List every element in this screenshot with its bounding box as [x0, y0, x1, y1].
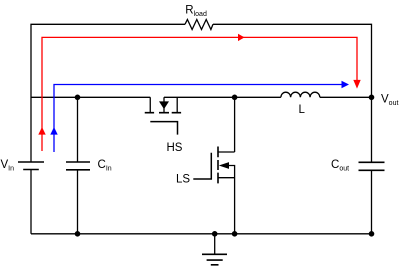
wire rail inductor to Vout: [320, 96, 372, 98]
node junction switch node: [232, 95, 238, 101]
svg-text:L: L: [299, 104, 306, 116]
svg-text:LS: LS: [176, 174, 190, 186]
svg-text:VIn: VIn: [1, 159, 15, 173]
transistor Q1 HS gate: [150, 122, 177, 135]
node V_out: [369, 95, 375, 101]
transistor Q2 LS gate: [193, 153, 211, 179]
transistor Q2 LS body+source leads: [218, 166, 235, 234]
transistor Q2 LS body arrow: [219, 162, 229, 169]
battery V_in plates: [18, 162, 44, 170]
red arrow up-left: [38, 127, 45, 135]
node junction ground: [212, 231, 218, 237]
svg-text:CIn: CIn: [98, 159, 112, 173]
ground bars: [202, 254, 227, 264]
wire top-left loop (Vin to Rload): [31, 24, 185, 162]
ground stem: [214, 234, 216, 255]
node junction C_in bottom: [75, 231, 81, 237]
transistor Q1 HS body arrow: [159, 101, 169, 109]
capacitor C_out plates: [359, 162, 385, 170]
svg-text:Rload: Rload: [185, 5, 207, 19]
red arrow down-right: [353, 80, 360, 89]
wire mid rail left (Vin to HS drain): [31, 96, 150, 98]
wire bottom rail: [31, 233, 372, 235]
current loop blue path: [54, 85, 342, 153]
capacitor C_in plates: [66, 162, 90, 170]
blue arrow right: [342, 81, 350, 88]
node junction LS source: [232, 231, 238, 237]
wire Vin bottom lead: [30, 170, 32, 234]
node junction C_in top: [75, 95, 81, 101]
transistor Q2 LS drain lead: [218, 97, 235, 152]
transistor Q1 HS channel bars: [145, 112, 181, 114]
svg-text:HS: HS: [167, 142, 183, 154]
transistor Q2 LS channel bars: [217, 147, 219, 184]
wire right below Cout: [371, 170, 373, 234]
transistor Q1 HS stubs: [150, 97, 177, 112]
inductor L bumps: [281, 92, 320, 97]
node junction bottom-right: [369, 231, 375, 237]
blue arrow up-left: [50, 127, 57, 135]
svg-text:Vout: Vout: [381, 94, 398, 108]
resistor R1 zigzag: [185, 20, 213, 30]
svg-text:Cout: Cout: [331, 159, 349, 173]
current loop red path: [42, 37, 357, 151]
wire mid rail right (HS source to inductor): [164, 96, 281, 98]
wire top-right (Rload to Vout corner): [213, 24, 372, 162]
capacitor C_in leads: [77, 97, 79, 234]
red arrow right-top: [238, 34, 245, 41]
